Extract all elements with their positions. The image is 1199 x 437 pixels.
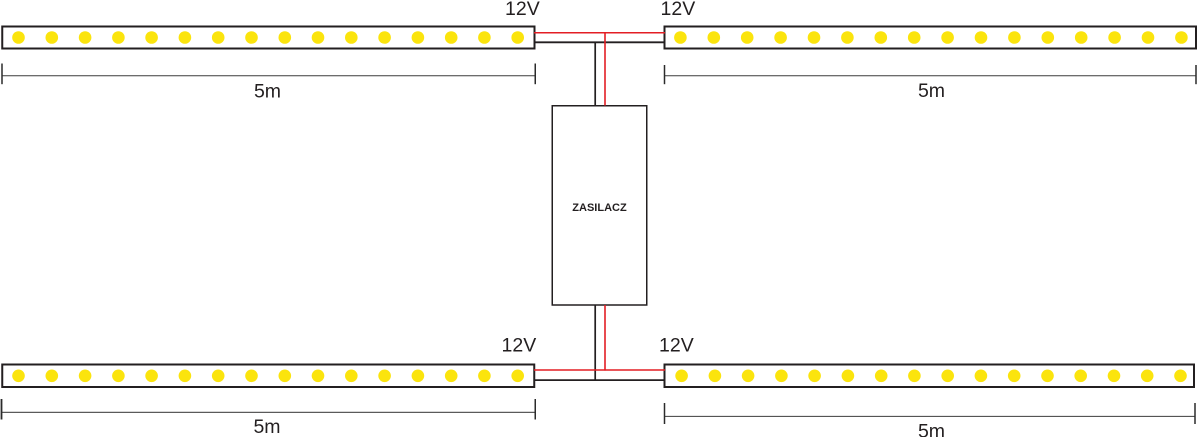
svg-text:12V: 12V (502, 335, 537, 357)
dimension line 5m (bottom-right strip) (665, 403, 1196, 437)
wire black bottom horizontal (GND feed, strip LS3 to LS4) (534, 379, 665, 381)
svg-text:5m: 5m (254, 81, 281, 103)
wire black top vertical (GND to power supply top) (594, 42, 596, 106)
LED strip LS4 (bottom-right) (665, 365, 1195, 388)
LED strip LS3 (bottom-left) (2, 365, 534, 388)
dimension line 5m (top-right strip) (665, 65, 1197, 102)
svg-text:5m: 5m (253, 416, 280, 437)
wire black bottom vertical (GND from power supply bottom) (594, 305, 596, 381)
svg-text:12V: 12V (659, 335, 694, 357)
svg-text:5m: 5m (918, 421, 945, 437)
svg-text:ZASILACZ: ZASILACZ (572, 202, 627, 214)
power supply ZASILACZ (552, 106, 647, 305)
svg-text:12V: 12V (661, 0, 696, 20)
svg-text:12V: 12V (505, 0, 540, 20)
dimension line 5m (top-left strip) (2, 64, 535, 103)
wire red bottom vertical (+12V from power supply bottom) (604, 305, 606, 371)
LED strip LS2 (top-right) (665, 27, 1197, 49)
wire red top vertical (+12V to power supply top) (604, 32, 606, 105)
svg-text:5m: 5m (918, 80, 945, 102)
wire red top horizontal (+12V feed, strip LS1 to LS2) (534, 32, 665, 34)
wire black top horizontal (GND feed, strip LS1 to LS2) (534, 41, 665, 43)
LED strip LS1 (top-left) (2, 27, 534, 49)
wire red bottom horizontal (+12V feed, strip LS3 to LS4) (534, 369, 665, 371)
dimension line 5m (bottom-left strip) (2, 399, 536, 437)
